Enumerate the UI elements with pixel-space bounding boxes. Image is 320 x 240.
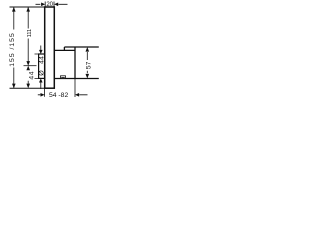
svg-text:Ø: Ø	[38, 70, 45, 76]
svg-text:20: 20	[46, 1, 53, 8]
svg-text:44: 44	[38, 56, 45, 64]
svg-text:111: 111	[27, 29, 33, 37]
svg-text:44: 44	[28, 71, 35, 80]
svg-text:54 -82: 54 -82	[49, 92, 68, 99]
svg-text:155 /155: 155 /155	[9, 32, 16, 66]
svg-text:57: 57	[86, 61, 93, 69]
